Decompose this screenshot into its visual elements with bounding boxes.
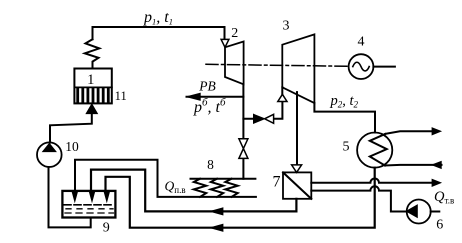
wire turbine3 extraction to heat-exchanger 7: [296, 92, 298, 165]
wire main steam line p1,t1: [93, 27, 225, 39]
svg-text:5: 5: [343, 140, 350, 155]
svg-text:11: 11: [115, 89, 127, 103]
svg-text:1: 1: [87, 72, 94, 88]
svg-text:РВ: РВ: [198, 79, 216, 94]
shaft centerline: [206, 64, 349, 66]
svg-text:4: 4: [358, 35, 365, 50]
heater 8 (feedwater heater coils): [191, 179, 256, 197]
generator 4: [349, 54, 374, 79]
wire condenser condensate to tank: [106, 168, 375, 228]
wire feedwater pump10 to boiler: [50, 114, 92, 143]
spray arrow a3 in tank: [104, 191, 110, 202]
tank 9 (deaerator): [62, 191, 115, 218]
arrow PB: [186, 93, 200, 100]
wire turbine2 exhaust / extraction down-leg: [242, 84, 244, 178]
valve V1 (bowtie): [254, 114, 274, 123]
flow arrow on drain line: [210, 208, 223, 215]
spray arrow a2 in tank: [89, 191, 95, 202]
flow arrow on condensate line: [210, 224, 223, 231]
svg-text:6: 6: [436, 218, 443, 233]
arrow Qtv supply: [432, 179, 441, 186]
svg-text:7: 7: [273, 174, 281, 191]
wire tank9 to pump10 suction: [49, 167, 91, 227]
wire heating water supply Qtv: [311, 179, 432, 183]
wire pump6 outlet stub: [431, 211, 440, 213]
arrow cooling outlet: [432, 128, 441, 135]
wire heater8 drain to tank (incl. heater bottom plate): [75, 160, 256, 197]
label p1, t1: [143, 9, 173, 27]
wire turbine3 exhaust to condenser: [314, 103, 375, 133]
svg-text:9: 9: [103, 221, 110, 236]
fuel arrow into boiler: [86, 104, 97, 114]
valve V2 (vertical bowtie): [239, 139, 248, 159]
condenser 5: [357, 133, 392, 168]
arrow into turbine 3: [278, 94, 287, 101]
wire generator shaft stub: [373, 66, 395, 68]
wire cooling water inlet: [385, 164, 442, 167]
svg-text:2: 2: [231, 26, 238, 41]
svg-text:8: 8: [207, 157, 214, 172]
svg-text:p1, t1: p1, t1: [143, 9, 173, 27]
wire cooling water outlet: [385, 131, 432, 134]
wire PB extraction: [187, 96, 244, 98]
spray arrow a1 in tank: [72, 191, 78, 202]
arrow cooling inlet: [432, 161, 441, 168]
wire heat-exchanger7 drain to tank: [91, 170, 296, 212]
turbine 2 (HP): [225, 42, 244, 85]
pump 6: [406, 200, 430, 224]
svg-text:3: 3: [283, 19, 290, 34]
inlet valve of turbine 2: [221, 39, 229, 47]
turbine 3 (LP): [282, 34, 314, 103]
wire reheat line to turbine3: [243, 87, 282, 119]
superheater zigzag: [85, 39, 100, 68]
pump 10: [37, 142, 62, 167]
heat exchanger 7: [283, 172, 311, 198]
boiler 1: [74, 69, 111, 104]
svg-text:10: 10: [65, 139, 79, 154]
arrow into heat-exchanger 7: [292, 165, 302, 173]
wire heating water return to pump6: [311, 186, 406, 211]
